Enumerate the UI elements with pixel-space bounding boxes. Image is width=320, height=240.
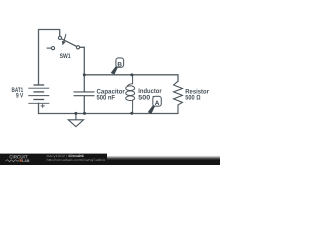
wire left rail [38, 30, 40, 86]
node B flag box [116, 58, 124, 67]
svg-text:500 nF: 500 nF [97, 95, 116, 102]
svg-text:9 V: 9 V [16, 93, 24, 100]
SW1 throw stub [47, 47, 52, 49]
inductor L1 [126, 75, 135, 114]
coil loop 3 [126, 96, 135, 101]
svg-text:B: B [117, 61, 122, 68]
short plate 1 [33, 84, 44, 86]
long plate 1 [28, 87, 49, 89]
junction dot cap bottom [83, 112, 86, 115]
battery BAT1 [28, 85, 49, 108]
SW1 terminal circle right [76, 46, 79, 49]
svg-text:htto//circuitiab.com/cwnq7a6b3: htto//circuitiab.com/cwnq7a6b3 [47, 158, 106, 162]
SW1 terminal circle top [58, 36, 61, 39]
plus sign [41, 105, 45, 107]
ground triangle [68, 120, 83, 127]
junction dot cap/switch top [83, 73, 86, 76]
inductor bottom stub [132, 100, 134, 113]
watermark logo square [20, 159, 22, 162]
switch SW1 [47, 34, 80, 50]
coil loop 2 [126, 91, 135, 96]
junction dot inductor top [130, 73, 133, 76]
junction dot ground [74, 112, 77, 115]
inductor top stub [127, 75, 132, 86]
svg-text:LAB: LAB [22, 159, 30, 163]
node A flag pointer [148, 105, 155, 114]
ground stub [75, 114, 77, 120]
short plate 3 [33, 99, 44, 101]
svg-text:A: A [155, 100, 160, 107]
junction dot inductor bottom [130, 112, 133, 115]
short plate 2 [33, 91, 44, 93]
node B flag pointer [111, 66, 118, 75]
wire top rail [39, 30, 60, 37]
wire switch to cap vertical [80, 47, 84, 91]
svg-text:SW1: SW1 [60, 53, 71, 60]
SW1 terminal circle left [51, 47, 54, 50]
capacitor C plates [74, 92, 95, 96]
SW1 arrow shaft [64, 34, 66, 41]
wire bottom bus [39, 113, 179, 115]
ground [68, 114, 83, 127]
long plate 3 [28, 102, 49, 104]
wire top bus [84, 75, 178, 81]
SW1 lever [62, 39, 77, 46]
node A flag box [153, 96, 162, 106]
long plate 2 [28, 95, 49, 97]
capacitor top plate [74, 91, 95, 93]
wire battery bottom stub [38, 103, 40, 113]
svg-text:500 Ω: 500 Ω [185, 95, 200, 102]
watermark zigzag [6, 160, 20, 162]
SW1 arrowhead [62, 41, 66, 46]
coil loop 1 [126, 86, 135, 91]
wire cap bottom [83, 96, 85, 114]
capacitor bottom plate [74, 95, 95, 97]
resistor R zigzag [174, 81, 183, 113]
